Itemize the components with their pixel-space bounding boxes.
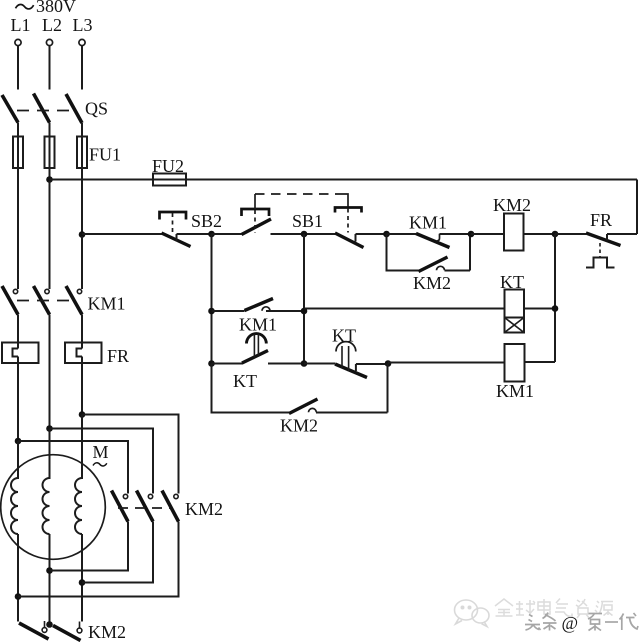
wire winding2 to KM2 contact1 bottom — [50, 522, 129, 571]
fuse FU1 pole2 — [45, 137, 55, 169]
svg-text:KM2: KM2 — [280, 416, 318, 436]
wire L1 to QS — [17, 46, 19, 90]
fuse FU2 — [153, 174, 186, 186]
wire QS to FU1 pole1 — [17, 123, 19, 181]
svg-text:M: M — [93, 442, 109, 462]
svg-text:380V: 380V — [36, 0, 76, 16]
wire node B2 to KT coil — [304, 308, 505, 310]
wire phase3 into motor — [81, 415, 83, 480]
svg-text:FU1: FU1 — [89, 145, 121, 165]
pushbutton SB1 NC contact — [304, 208, 387, 248]
wire L3 to QS — [81, 46, 83, 90]
contact KT delayed closing NO — [212, 334, 305, 364]
svg-text:KM1: KM1 — [409, 213, 447, 233]
wire node C2 to KT NC — [304, 363, 335, 365]
thermal element FR pole3 — [65, 343, 102, 364]
wire L2 to QS — [49, 46, 51, 90]
wire L3 tap to KM1 main — [81, 236, 83, 289]
junction node W1 — [15, 593, 22, 600]
motor M circle — [1, 455, 106, 560]
svg-text:KM1: KM1 — [496, 381, 534, 401]
junction node A5 — [552, 231, 559, 238]
wire right rail down to FR — [636, 180, 638, 235]
junction node P1 branch — [15, 438, 22, 445]
contact KM2 star 1 — [19, 621, 49, 639]
wire phase2 into motor — [49, 429, 51, 480]
wire to KM2 coil — [471, 233, 504, 235]
motor winding 2 — [43, 478, 50, 534]
junction node B3 — [552, 305, 559, 312]
wire branch row D left — [212, 364, 290, 413]
wire node C3 to KM1 coil — [388, 362, 505, 364]
junction node S1 — [46, 621, 53, 628]
wire phase1 into motor — [17, 441, 19, 479]
pushbutton SB1 NO contact — [212, 194, 305, 235]
terminal L1 — [15, 39, 21, 45]
switch QS blade pole1 — [2, 95, 18, 123]
label motor tilde — [93, 463, 107, 466]
wire KM1 coil to rail — [525, 361, 556, 363]
terminal L2 — [46, 39, 52, 45]
wire KM1 main to FR elements and motor, pole1 with heater jog — [13, 315, 19, 442]
wire KM1 main to motor pole2 — [49, 315, 51, 429]
svg-text:KM1: KM1 — [88, 294, 126, 314]
svg-text:KM2: KM2 — [88, 622, 126, 642]
wire right inner rail — [554, 234, 556, 362]
junction node A4 — [468, 231, 475, 238]
contact KM1 self-holding NO — [387, 234, 472, 248]
svg-text:@: @ — [562, 613, 579, 633]
svg-text:KM2: KM2 — [493, 195, 531, 215]
wire L2 FU1 to KM1 main — [49, 181, 51, 289]
wire QS to FU1 pole3 — [81, 123, 83, 236]
junction node A3 — [383, 231, 390, 238]
coil KT with delay element — [505, 290, 525, 333]
contact KM1 aux NO — [212, 299, 305, 312]
terminal L3 — [79, 39, 85, 45]
coil KM1 — [505, 344, 525, 382]
linkage SB1 dashed — [255, 194, 348, 207]
svg-text:KM2: KM2 — [185, 499, 223, 519]
junction node C2 — [301, 360, 308, 367]
wire winding2 bottom — [49, 534, 51, 625]
svg-text:QS: QS — [85, 99, 108, 119]
junction node W3 — [79, 579, 86, 586]
watermark wechat icon — [455, 600, 490, 627]
contactor KM2 delta contacts — [112, 491, 179, 522]
wire branch phase1 to KM2 contact 1 — [18, 441, 128, 494]
junction node B1 — [208, 308, 215, 315]
wire KM2 coil to node — [524, 233, 556, 235]
svg-text:KT: KT — [500, 272, 524, 292]
svg-text:SB2: SB2 — [191, 211, 222, 231]
wire branch phase2 to KM2 contact 2 — [50, 429, 154, 494]
fuse FU1 pole1 — [13, 137, 23, 169]
svg-text:SB1: SB1 — [292, 211, 323, 231]
label ~380V — [16, 0, 77, 16]
wire FU2 top rail — [50, 179, 638, 181]
wire winding3 to KM2 contact2 bottom — [82, 522, 153, 583]
svg-text:L3: L3 — [73, 15, 93, 35]
svg-text:FR: FR — [107, 346, 129, 366]
junction node P3 branch — [79, 411, 86, 418]
contact KM2 parallel NO — [387, 234, 471, 272]
motor winding 3 — [75, 478, 82, 534]
svg-text:KM2: KM2 — [413, 273, 451, 293]
junction node W2 — [46, 567, 53, 574]
fuse FU1 pole3 — [77, 137, 87, 169]
motor winding 1 — [11, 478, 18, 534]
coil KM2 — [504, 214, 524, 251]
pushbutton SB2 NC contact — [160, 212, 212, 247]
junction node B2 — [301, 308, 308, 315]
junction node C3 — [385, 360, 392, 367]
wire L3 tap to SB2 — [82, 233, 162, 235]
wire left holding rail — [211, 234, 213, 413]
wire KM1 main to FR element pole3 with heater jog — [77, 315, 83, 415]
wire winding1 bottom — [17, 534, 19, 622]
junction node C1 — [208, 360, 215, 367]
wire middle rail — [303, 234, 305, 364]
wire KT coil to rail — [524, 308, 555, 310]
switch QS linkage dashed — [17, 110, 73, 112]
junction L3 control tap — [79, 231, 86, 238]
thermal element FR pole1 — [2, 343, 39, 364]
contactor KM1 main contacts — [2, 286, 82, 315]
junction node A2 — [301, 231, 308, 238]
wire winding3 bottom — [81, 534, 83, 622]
contact KM2 aux NO row D — [289, 364, 388, 414]
watermark text 全球电气资源 (drawn strokes) — [495, 599, 613, 619]
thermal relay FR NC contact — [586, 233, 637, 268]
contact KT delayed opening NC — [335, 342, 388, 378]
svg-text:KT: KT — [332, 326, 356, 346]
switch QS blade pole3 — [66, 94, 82, 123]
junction node A1 — [208, 231, 215, 238]
svg-text:FR: FR — [590, 210, 612, 230]
contact KM2 star 2 — [53, 622, 82, 641]
svg-text:KT: KT — [233, 371, 257, 391]
watermark text 头条@泵一代 (drawn strokes) — [525, 613, 638, 634]
svg-text:FU2: FU2 — [152, 156, 184, 176]
svg-text:KM1: KM1 — [239, 315, 277, 335]
junction node P2 branch — [46, 425, 53, 432]
switch QS blade pole2 — [34, 94, 50, 123]
junction L2 / FU2 line — [46, 176, 53, 183]
wire QS to FU1 pole2 — [49, 123, 51, 182]
svg-text:L1: L1 — [11, 15, 31, 35]
wire branch phase3 to KM2 contact 3 — [82, 415, 179, 494]
svg-text:L2: L2 — [42, 15, 62, 35]
wire winding1 to KM2 contact3 bottom — [18, 522, 179, 597]
wire node to FR — [555, 233, 586, 235]
wire L1 FU1 to KM1 main — [17, 168, 19, 289]
